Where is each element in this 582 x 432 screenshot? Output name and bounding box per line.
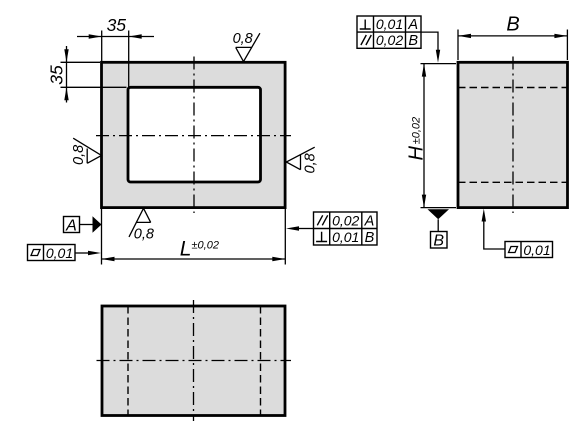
feature control frame front (parallel/perpendicular)	[314, 212, 378, 245]
L dimension extension lines	[102, 208, 286, 265]
svg-text:0,8: 0,8	[71, 145, 87, 165]
svg-text:B: B	[365, 230, 375, 246]
svg-text:0,01: 0,01	[332, 229, 359, 245]
dim B extension lines	[458, 30, 567, 61]
datum A triangle	[93, 216, 102, 232]
surface finish 0,8 bottom	[129, 208, 151, 237]
feature control frame side (perpendicular/parallel)	[357, 16, 421, 48]
bottom view vertical centerline	[193, 300, 195, 421]
surface finish 0,8 left	[73, 138, 101, 163]
front view horizontal centerline	[96, 135, 291, 137]
L dimension line	[102, 258, 286, 260]
svg-text:H: H	[406, 146, 428, 161]
svg-text:0,8: 0,8	[303, 153, 319, 173]
front view outer body	[102, 62, 286, 207]
surface finish 0,8 top	[236, 33, 260, 61]
svg-text:0,8: 0,8	[233, 31, 253, 47]
datum B triangle	[428, 209, 450, 219]
flatness front leader	[75, 252, 90, 254]
side view hidden line top	[458, 87, 568, 89]
side view body	[458, 62, 568, 207]
bottom view hidden line right	[260, 306, 262, 416]
flatness side leader	[484, 221, 505, 249]
side view hidden line bottom	[458, 181, 568, 183]
svg-text:B: B	[433, 233, 444, 250]
datum A leader	[80, 224, 93, 226]
svg-text:A: A	[407, 17, 418, 33]
svg-text:35: 35	[107, 15, 127, 35]
svg-text:0,01: 0,01	[46, 245, 73, 261]
dim H line	[423, 64, 425, 208]
dim 35 vertical arrows	[64, 49, 68, 62]
svg-text:0,01: 0,01	[376, 16, 403, 32]
datum B leader	[437, 219, 439, 231]
front view vertical centerline	[193, 57, 195, 214]
dim 35 horizontal extension lines	[61, 31, 129, 88]
flatness frame front	[28, 245, 76, 261]
svg-text:35: 35	[47, 65, 67, 85]
bottom view body	[102, 306, 285, 416]
dim 35 horizontal arrows	[89, 34, 102, 39]
svg-text:B: B	[506, 14, 519, 36]
svg-text:A: A	[364, 213, 375, 229]
svg-text:0,02: 0,02	[376, 32, 403, 48]
bottom view horizontal centerline	[97, 360, 292, 362]
side view centerline	[512, 57, 514, 214]
datum A box	[64, 217, 80, 233]
svg-text:0,8: 0,8	[134, 227, 154, 243]
surface finish 0,8 right	[286, 147, 314, 170]
svg-text:0,01: 0,01	[523, 242, 550, 258]
dim B line	[458, 35, 567, 37]
svg-text:B: B	[408, 33, 418, 49]
FCF side leader	[421, 32, 438, 52]
front view inner hole	[128, 87, 261, 182]
svg-text:±0,02: ±0,02	[192, 240, 219, 252]
svg-text:0,02: 0,02	[332, 212, 359, 228]
dim 35 horizontal line	[77, 36, 154, 38]
dim 35 vertical line	[66, 46, 68, 103]
FCF front leader	[299, 228, 314, 230]
flatness frame side	[505, 242, 553, 258]
datum B box	[431, 232, 448, 249]
dim H extension lines	[421, 64, 457, 208]
svg-text:A: A	[65, 217, 77, 234]
svg-text:±0,02: ±0,02	[411, 117, 423, 144]
svg-text:L: L	[180, 237, 192, 260]
bottom view hidden line left	[127, 306, 129, 416]
